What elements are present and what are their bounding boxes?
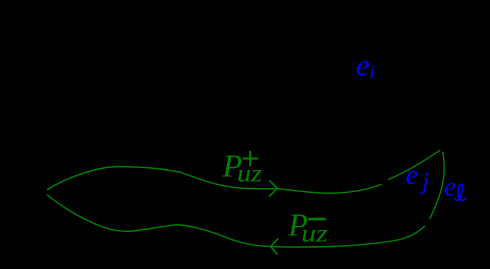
svg-text:uz: uz <box>301 221 328 248</box>
label e_l (blue) <box>444 172 465 202</box>
svg-text:e: e <box>444 172 456 202</box>
label e_j (blue) <box>406 159 430 195</box>
edge e_l from vertex z down to lower vertex <box>430 152 444 218</box>
label e_i (blue) <box>356 48 375 84</box>
svg-text:e: e <box>406 159 419 191</box>
edge e_j from inner vertex to vertex z <box>389 151 440 180</box>
wire: upper path P+uz from vertex u to inner vertex <box>48 167 382 194</box>
svg-text:e: e <box>356 48 370 83</box>
minus sign of P-uz <box>308 218 325 221</box>
plus sign of P+uz <box>243 151 258 166</box>
label P-uz (green) <box>287 207 328 248</box>
arrow head on P+uz (pointing right) <box>270 181 278 196</box>
svg-text:j: j <box>419 169 429 195</box>
arrow head on P-uz (pointing left) <box>271 239 278 254</box>
script ell drawn as path <box>455 185 465 201</box>
label P+uz (green) <box>222 148 263 188</box>
wire: lower path P-uz from lower vertex back to vertex u <box>47 195 424 247</box>
svg-text:i: i <box>369 62 375 84</box>
